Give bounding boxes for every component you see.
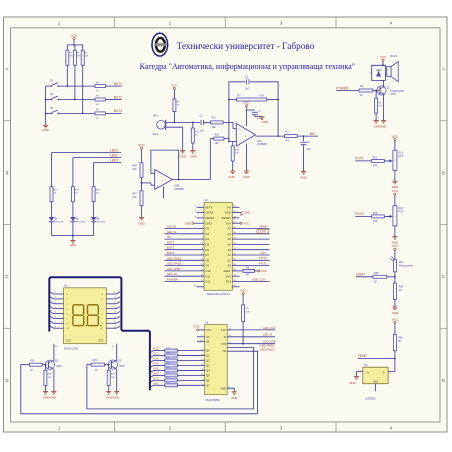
svg-text:D10: D10 <box>206 269 211 273</box>
svg-text:VCC: VCC <box>392 134 399 138</box>
svg-text:I2C: I2C <box>167 235 171 239</box>
svg-text:GNDGND: GNDGND <box>106 396 119 400</box>
svg-text:POT1: POT1 <box>259 261 267 265</box>
svg-text:Q5: Q5 <box>206 340 210 344</box>
svg-text:LIGHT: LIGHT <box>258 230 267 234</box>
svg-text:0R: 0R <box>246 273 249 276</box>
svg-text:LED2: LED2 <box>110 153 118 157</box>
svg-text:VIN: VIN <box>226 205 231 209</box>
svg-text:D6: D6 <box>206 248 210 252</box>
svg-text:12: 12 <box>114 307 116 309</box>
svg-text:Q7: Q7 <box>206 383 210 387</box>
svg-text:7: 7 <box>202 238 203 240</box>
svg-text:D9: D9 <box>206 264 210 268</box>
svg-text:S1: S1 <box>50 79 54 83</box>
svg-text:STB: STB <box>221 343 226 346</box>
svg-text:2: 2 <box>55 297 56 299</box>
svg-text:POT: POT <box>398 155 403 158</box>
svg-text:LIGHT: LIGHT <box>356 273 365 277</box>
svg-text:Q3: Q3 <box>206 364 210 368</box>
svg-text:NPN: NPN <box>56 365 61 368</box>
svg-text:R24: R24 <box>399 286 404 289</box>
svg-text:VCC: VCC <box>193 325 199 329</box>
svg-text:POT: POT <box>398 210 403 213</box>
svg-text:Q1: Q1 <box>206 354 210 358</box>
svg-text:11: 11 <box>229 328 231 330</box>
svg-text:10K: 10K <box>132 196 137 199</box>
svg-text:S2: S2 <box>50 92 54 96</box>
svg-text:IN/TX: IN/TX <box>206 205 213 209</box>
svg-text:R20: R20 <box>398 207 403 210</box>
svg-text:WS_LED: WS_LED <box>55 222 64 224</box>
svg-text:GND: GND <box>392 311 398 315</box>
svg-text:K4C: K4C <box>153 361 158 365</box>
svg-text:+5V: +5V <box>226 221 231 225</box>
svg-text:BUT2: BUT2 <box>114 95 122 99</box>
svg-text:D7: D7 <box>206 253 210 257</box>
svg-text:POWER: POWER <box>336 86 349 90</box>
svg-text:Q2: Q2 <box>206 359 210 363</box>
svg-text:1: 1 <box>195 206 196 208</box>
svg-text:BUT1: BUT1 <box>114 82 122 86</box>
svg-text:LED_CLK: LED_CLK <box>252 277 265 281</box>
svg-text:LED_R: LED_R <box>263 333 272 337</box>
svg-text:D: D <box>442 378 445 383</box>
svg-text:V+: V+ <box>366 371 370 375</box>
svg-text:D4: D4 <box>206 237 210 241</box>
svg-text:K5C: K5C <box>153 366 158 370</box>
svg-text:A2: A2 <box>227 253 231 257</box>
svg-text:U2: U2 <box>205 198 209 202</box>
svg-text:10K: 10K <box>235 153 239 155</box>
svg-text:47R: 47R <box>373 220 378 223</box>
svg-text:VCC: VCC <box>380 55 387 59</box>
svg-text:GND: GND <box>42 128 50 132</box>
svg-text:TEMP: TEMP <box>358 354 367 358</box>
svg-text:D5: D5 <box>206 243 210 247</box>
svg-text:Q4: Q4 <box>206 369 210 373</box>
svg-text:LED_STB: LED_STB <box>263 340 276 344</box>
svg-text:R30: R30 <box>30 359 35 362</box>
svg-text:VCC: VCC <box>392 189 399 193</box>
svg-text:D3: D3 <box>206 232 210 236</box>
svg-text:Q5: Q5 <box>206 373 210 377</box>
svg-text:POT1: POT1 <box>355 157 364 161</box>
svg-text:BUT3: BUT3 <box>167 251 175 255</box>
svg-text:1: 1 <box>55 292 56 294</box>
svg-text:WS_LED: WS_LED <box>97 222 106 224</box>
svg-text:U3B: U3B <box>174 184 179 188</box>
svg-text:D13: D13 <box>226 280 231 284</box>
svg-text:GND: GND <box>185 221 191 225</box>
svg-text:VCC: VCC <box>392 317 399 321</box>
svg-text:10K: 10K <box>246 311 250 313</box>
svg-text:HCM_LED: HCM_LED <box>64 346 79 350</box>
svg-text:RESET: RESET <box>206 216 215 220</box>
svg-text:GNDGND: GNDGND <box>43 396 56 400</box>
svg-text:10K: 10K <box>69 56 73 58</box>
svg-text:11: 11 <box>229 335 231 337</box>
svg-text:MK1: MK1 <box>153 115 159 118</box>
svg-text:LM35DZ: LM35DZ <box>365 397 376 401</box>
svg-text:7: 7 <box>55 322 56 324</box>
svg-text:POT2: POT2 <box>355 212 364 216</box>
svg-text:LED_R: LED_R <box>167 225 176 229</box>
svg-text:ADJ: ADJ <box>373 379 379 383</box>
svg-text:11: 11 <box>114 302 116 304</box>
svg-text:D: D <box>5 378 8 383</box>
svg-text:GND: GND <box>244 211 250 215</box>
svg-text:D11: D11 <box>206 274 211 278</box>
svg-text:OE: OE <box>223 350 227 353</box>
svg-text:GND: GND <box>190 154 196 158</box>
svg-text:1uF: 1uF <box>245 88 250 91</box>
svg-text:VCC: VCC <box>240 289 247 293</box>
svg-text:10K: 10K <box>215 142 220 145</box>
svg-text:LED_PAD1: LED_PAD1 <box>260 344 275 348</box>
svg-text:R47: R47 <box>132 192 137 195</box>
svg-text:17: 17 <box>234 275 236 277</box>
svg-text:LED_CLK: LED_CLK <box>263 326 276 330</box>
svg-text:LED_DI: LED_DI <box>167 272 177 276</box>
svg-text:21: 21 <box>234 253 236 255</box>
svg-text:GND: GND <box>300 176 306 180</box>
svg-text:R11: R11 <box>212 117 217 120</box>
svg-text:MIC: MIC <box>310 132 317 136</box>
svg-text:B: B <box>6 171 9 176</box>
svg-text:U5: U5 <box>205 320 209 324</box>
svg-text:10K: 10K <box>85 56 89 58</box>
svg-text:R21: R21 <box>373 156 378 159</box>
svg-text:Катедра "Автоматика, информаци: Катедра "Автоматика, информационна и упр… <box>140 62 355 71</box>
svg-text:7.5K: 7.5K <box>259 94 264 97</box>
svg-text:R40: R40 <box>132 164 137 167</box>
svg-text:K7C: K7C <box>153 376 158 380</box>
svg-text:A1: A1 <box>227 258 231 262</box>
svg-text:R32: R32 <box>93 359 98 362</box>
svg-text:GND: GND <box>180 154 186 158</box>
svg-text:S3: S3 <box>50 106 54 110</box>
svg-text:D8: D8 <box>206 258 210 262</box>
svg-text:74HC595D: 74HC595D <box>205 398 221 402</box>
svg-text:MIC: MIC <box>260 251 265 255</box>
svg-text:3V3: 3V3 <box>226 274 231 278</box>
svg-text:-: - <box>157 173 158 177</box>
svg-text:GND: GND <box>243 175 249 179</box>
svg-text:1uF: 1uF <box>200 130 205 133</box>
svg-text:LED_G: LED_G <box>167 230 177 234</box>
svg-text:BUT2: BUT2 <box>167 246 175 250</box>
svg-text:11: 11 <box>229 342 231 344</box>
svg-text:K2C: K2C <box>153 352 158 356</box>
svg-text:WS_LED: WS_LED <box>76 222 85 224</box>
svg-text:LED_PAD2: LED_PAD2 <box>167 262 182 266</box>
svg-text:C: C <box>5 274 8 279</box>
svg-text:A7: A7 <box>227 227 231 231</box>
svg-text:NPN: NPN <box>391 93 396 96</box>
svg-text:GND: GND <box>70 243 78 247</box>
svg-text:ARDUINO NANO: ARDUINO NANO <box>206 292 230 296</box>
svg-text:A6: A6 <box>227 232 231 236</box>
svg-text:GND: GND <box>138 221 144 225</box>
svg-text:LED_STB: LED_STB <box>167 267 180 271</box>
svg-text:1K: 1K <box>360 94 363 97</box>
svg-text:VCC: VCC <box>261 269 267 273</box>
svg-text:10K: 10K <box>132 168 137 171</box>
svg-text:LED3: LED3 <box>110 158 118 162</box>
svg-text:TEMP: TEMP <box>259 224 267 228</box>
svg-text:BUT1: BUT1 <box>167 240 175 244</box>
svg-text:LM358D: LM358D <box>257 142 267 146</box>
svg-text:R21: R21 <box>398 151 403 154</box>
svg-text:K6C: K6C <box>153 371 158 375</box>
svg-text:10K: 10K <box>212 126 217 129</box>
svg-text:GND: GND <box>225 211 231 215</box>
svg-text:NPN: NPN <box>119 365 124 368</box>
svg-text:1K: 1K <box>374 280 377 283</box>
svg-text:R14: R14 <box>215 133 220 136</box>
svg-text:RV1: RV1 <box>399 261 404 264</box>
svg-text:BUT3: BUT3 <box>114 109 122 113</box>
svg-text:10K: 10K <box>77 56 81 58</box>
svg-text:10K: 10K <box>48 377 52 379</box>
svg-text:LED_PAD1: LED_PAD1 <box>167 256 182 260</box>
svg-text:K3C: K3C <box>153 357 158 361</box>
svg-text:LED_PAD2: LED_PAD2 <box>260 348 275 352</box>
svg-text:47R: 47R <box>373 165 378 168</box>
svg-text:C: C <box>442 274 445 279</box>
svg-text:A5: A5 <box>227 237 231 241</box>
svg-text:VCC: VCC <box>171 83 178 87</box>
svg-text:27: 27 <box>234 222 236 224</box>
svg-text:A: A <box>6 67 9 72</box>
svg-text:K1C: K1C <box>153 347 158 351</box>
svg-text:VCC: VCC <box>71 33 78 37</box>
svg-text:LED1: LED1 <box>110 148 118 152</box>
svg-text:POWER: POWER <box>167 278 178 282</box>
svg-text:+: + <box>239 127 241 131</box>
svg-text:V-: V- <box>382 371 385 375</box>
svg-text:AREF: AREF <box>224 269 232 273</box>
svg-text:R26: R26 <box>398 337 403 340</box>
svg-text:10K: 10K <box>111 377 115 379</box>
svg-text:CLK: CLK <box>221 328 226 332</box>
svg-text:BUZ1: BUZ1 <box>391 54 398 58</box>
svg-text:Q6: Q6 <box>206 378 210 382</box>
svg-text:Q4: Q4 <box>206 335 210 339</box>
svg-text:1K: 1K <box>95 369 98 372</box>
svg-text:1uF: 1uF <box>307 148 312 151</box>
svg-text:Технически университет - Габро: Технически университет - Габрово <box>177 41 315 52</box>
svg-text:+: + <box>157 185 159 189</box>
svg-text:GND: GND <box>262 120 268 124</box>
svg-text:D12: D12 <box>206 280 211 284</box>
svg-text:2: 2 <box>195 211 196 213</box>
svg-text:R25: R25 <box>374 272 379 275</box>
svg-text:11: 11 <box>201 259 203 261</box>
svg-text:GND: GND <box>349 381 355 385</box>
svg-text:VCC: VCC <box>392 244 399 248</box>
svg-text:A4: A4 <box>227 243 231 247</box>
svg-text:2K: 2K <box>398 340 401 343</box>
svg-text:22: 22 <box>234 248 236 250</box>
svg-text:12: 12 <box>201 264 203 266</box>
svg-text:A3: A3 <box>227 248 231 252</box>
svg-text:GNDGND: GNDGND <box>374 125 387 129</box>
svg-text:Mic2: Mic2 <box>153 133 159 136</box>
svg-text:470: 470 <box>286 140 291 143</box>
svg-text:VCC: VCC <box>243 221 249 225</box>
svg-text:VCC: VCC <box>206 328 212 332</box>
svg-text:PN2222APA: PN2222APA <box>391 90 405 93</box>
svg-text:POT2: POT2 <box>259 256 267 260</box>
svg-text:GND: GND <box>221 387 227 390</box>
svg-text:A0: A0 <box>227 264 231 268</box>
svg-text:B: B <box>442 171 445 176</box>
svg-text:U4: U4 <box>364 363 368 367</box>
svg-text:1K: 1K <box>30 369 33 372</box>
svg-text:10K: 10K <box>378 106 382 108</box>
svg-text:OC2: OC2 <box>98 339 104 343</box>
svg-text:D2: D2 <box>206 227 210 231</box>
svg-text:GND: GND <box>231 396 237 400</box>
svg-text:SI: SI <box>224 336 227 339</box>
svg-text:K8C: K8C <box>153 381 158 385</box>
svg-text:Photoresistor: Photoresistor <box>399 264 413 267</box>
svg-text:U1: U1 <box>64 284 68 288</box>
svg-text:GND: GND <box>228 175 234 179</box>
svg-text:VCC: VCC <box>138 143 145 147</box>
svg-text:-: - <box>239 141 240 145</box>
svg-text:Q0: Q0 <box>206 349 210 353</box>
svg-text:RESET: RESET <box>222 216 231 220</box>
svg-text:OC1: OC1 <box>66 339 72 343</box>
svg-text:2K: 2K <box>399 289 402 292</box>
svg-text:LM358D: LM358D <box>174 187 184 191</box>
svg-text:D0/RX: D0/RX <box>206 211 214 215</box>
svg-text:A: A <box>442 67 445 72</box>
svg-text:R20: R20 <box>373 212 378 215</box>
svg-text:U1A: U1A <box>257 139 262 143</box>
svg-text:GND: GND <box>206 221 212 225</box>
